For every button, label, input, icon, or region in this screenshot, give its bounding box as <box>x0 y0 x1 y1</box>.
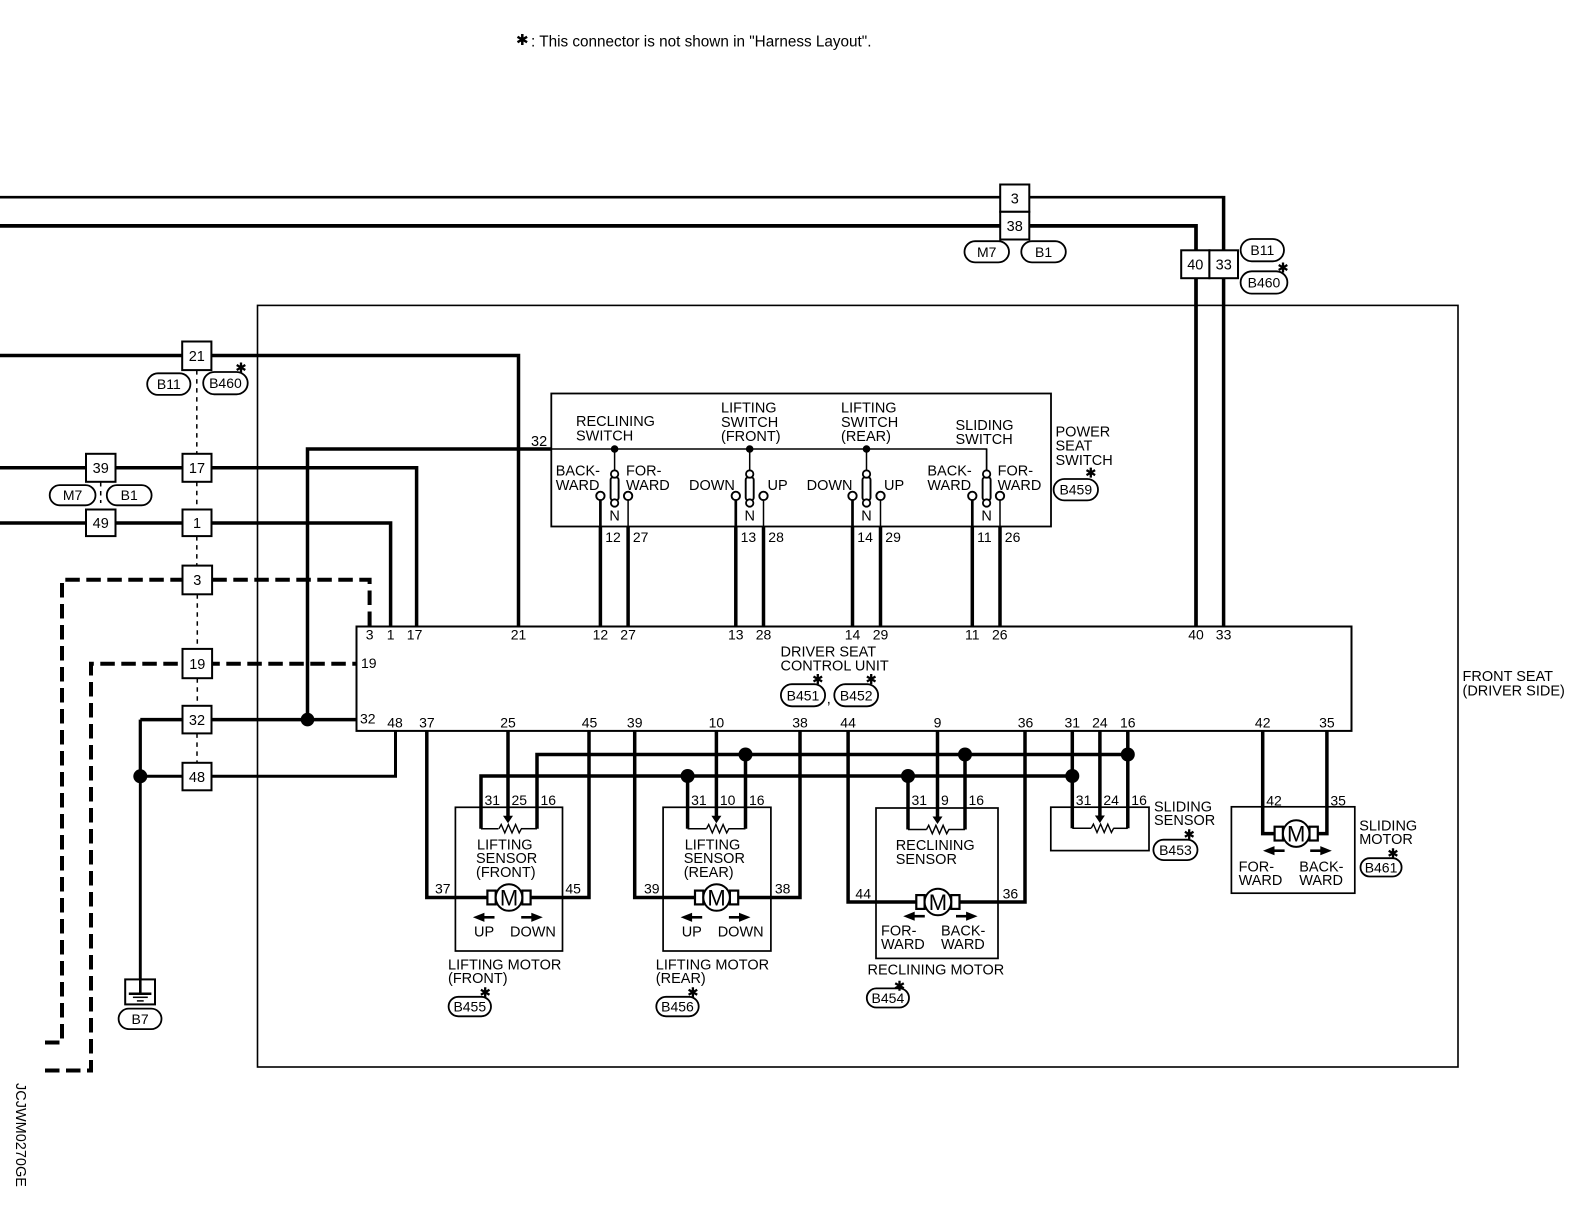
svg-text:32: 32 <box>360 711 376 727</box>
svg-text:28: 28 <box>768 529 784 545</box>
svg-text:JCJWM0270GE: JCJWM0270GE <box>12 1083 28 1187</box>
svg-text:26: 26 <box>992 626 1008 642</box>
svg-text:12: 12 <box>593 626 609 642</box>
svg-text:31: 31 <box>1076 792 1092 808</box>
svg-text:32: 32 <box>189 713 205 729</box>
connector 49 (M7/B1) box <box>86 510 116 537</box>
svg-text:N: N <box>981 509 991 525</box>
connector 3 (M7/B1) box <box>1000 185 1029 212</box>
node A - junction on wire 32 <box>301 713 315 727</box>
wire bus 31 - sensor return bus <box>481 776 1072 829</box>
svg-text:CONTROL UNIT: CONTROL UNIT <box>781 658 889 674</box>
svg-text:11: 11 <box>965 626 980 642</box>
svg-text:WARD: WARD <box>941 937 985 953</box>
connector oval B11 (left) <box>147 373 190 395</box>
wire 24 - DSCU to sliding sensor wiper <box>1098 731 1102 817</box>
svg-text:M: M <box>707 886 725 911</box>
wire 32 - row to DSCU pin 32 <box>140 718 356 722</box>
star B461 <box>1389 848 1398 858</box>
svg-text:13: 13 <box>741 529 757 545</box>
svg-text:DOWN: DOWN <box>718 925 764 941</box>
sliding switch SW4 capsule <box>986 449 988 471</box>
wire pin (left contact x=972.3) to DSCU <box>971 499 974 527</box>
resistor - reclining sensor <box>927 825 949 833</box>
svg-text:39: 39 <box>627 715 643 731</box>
svg-text:DOWN: DOWN <box>510 925 556 941</box>
wire pin (right contact x=1000.0) to DSCU <box>999 500 1001 527</box>
svg-text:N: N <box>744 509 754 525</box>
connector oval B460 (left) <box>203 372 248 394</box>
svg-text:27: 27 <box>633 529 649 545</box>
wire - switch common line inside power seat switch <box>551 449 986 471</box>
connector 17 box <box>183 454 212 482</box>
motor M2 - lifting motor rear <box>695 891 703 905</box>
svg-text:12: 12 <box>605 529 621 545</box>
motor M3 - reclining motor <box>916 895 924 909</box>
svg-text:31: 31 <box>1065 715 1081 731</box>
sliding motor box B461 <box>1231 807 1354 893</box>
connector oval B460 (top right) <box>1241 271 1288 293</box>
wire bus 16 - sensor supply bus <box>537 755 1128 829</box>
svg-text:21: 21 <box>511 626 527 642</box>
svg-text:9: 9 <box>941 792 949 808</box>
svg-text:26: 26 <box>1005 529 1021 545</box>
svg-text:,: , <box>827 692 831 708</box>
svg-text:16: 16 <box>1131 792 1147 808</box>
svg-text:B460: B460 <box>1248 274 1281 290</box>
wire - ground branch vertical <box>139 720 142 777</box>
switch dot - reclining switch junction <box>611 445 619 453</box>
wire - bus 31 drop to lifting sensor rear <box>686 776 690 829</box>
svg-text:21: 21 <box>189 349 205 365</box>
node on bus 31 at reclining sensor <box>901 769 915 783</box>
arrow FORWARD - reclining motor <box>914 915 925 918</box>
wire 25 - DSCU to lifting sensor front wiper <box>506 731 510 817</box>
wiper arrow - lifting sensor rear <box>711 816 721 824</box>
node on bus 16 at pin 16 wire <box>1121 748 1135 762</box>
svg-text:WARD: WARD <box>1239 873 1283 889</box>
wiper arrow - reclining sensor <box>933 817 943 825</box>
connector 39 (M7/B1) box <box>86 454 116 482</box>
reclining sensor box B454 <box>876 808 998 958</box>
svg-text:40: 40 <box>1188 626 1204 642</box>
star B451 <box>814 674 823 684</box>
wire 31 - DSCU to sliding sensor <box>1071 731 1075 828</box>
lifting sensor front box B455 <box>455 807 562 951</box>
svg-text:40: 40 <box>1187 257 1203 273</box>
svg-text:WARD: WARD <box>1299 873 1343 889</box>
svg-text:16: 16 <box>1120 715 1136 731</box>
svg-text:42: 42 <box>1266 793 1282 809</box>
svg-text:31: 31 <box>691 792 707 808</box>
arrow UP - lifting motor front <box>483 916 494 919</box>
svg-text:DOWN: DOWN <box>807 478 853 494</box>
svg-text:UP: UP <box>682 925 702 941</box>
wire 17 - row through connectors 39/17 to DSCU pin 17 <box>0 468 417 627</box>
svg-text:19: 19 <box>361 655 377 671</box>
svg-text:UP: UP <box>474 925 494 941</box>
svg-text:16: 16 <box>541 792 557 808</box>
connector oval B454 <box>867 988 909 1007</box>
wire 9 - DSCU to reclining sensor wiper <box>936 731 940 817</box>
lifting switch front SW2 capsule <box>749 449 751 471</box>
wire 19 - shielded dashed wire to DSCU pin 19 <box>45 664 357 1071</box>
svg-text:39: 39 <box>644 881 660 897</box>
svg-text:38: 38 <box>1007 219 1023 235</box>
wire pin (right contact x=628.1) to DSCU <box>627 500 629 527</box>
star B460 left <box>237 363 246 373</box>
connector oval M7 (top) <box>965 241 1010 262</box>
svg-text:31: 31 <box>485 792 501 808</box>
svg-text:RECLINING MOTOR: RECLINING MOTOR <box>868 963 1005 979</box>
POWER SEAT SWITCH box <box>551 394 1051 527</box>
svg-text:35: 35 <box>1330 793 1346 809</box>
switch dot - lifting switch rear junction <box>863 445 871 453</box>
wire 44 - DSCU to reclining motor <box>848 731 916 902</box>
svg-text:M: M <box>929 890 947 915</box>
connector 3 (left column) box <box>183 566 213 595</box>
svg-text:48: 48 <box>189 770 205 786</box>
svg-text:B452: B452 <box>840 687 873 703</box>
wire 21 - row through connector 21 to DSCU pin 21 <box>0 356 519 627</box>
svg-text:42: 42 <box>1255 715 1271 731</box>
svg-text:11: 11 <box>977 529 992 545</box>
reclining switch SW1 capsule <box>614 449 616 471</box>
wire 3 - shielded dashed wire to DSCU pin 3 <box>45 580 370 1043</box>
wire 45 - DSCU to lifting motor front <box>530 731 589 898</box>
switch dot - lifting switch front junction <box>746 445 754 453</box>
connector oval B452 <box>834 684 878 706</box>
connector oval B11 (top right) <box>1241 239 1284 261</box>
svg-text:B461: B461 <box>1365 859 1398 875</box>
svg-text:M7: M7 <box>977 244 997 260</box>
svg-text:N: N <box>861 509 871 525</box>
star B453 <box>1185 829 1194 839</box>
svg-text:(REAR): (REAR) <box>684 865 734 881</box>
wire 33 - battery feed horizontal <box>0 196 1222 199</box>
svg-text:: This connector is not shown: : This connector is not shown in "Harnes… <box>531 33 871 50</box>
connector oval B459 <box>1054 479 1098 500</box>
wire 38 - DSCU to lifting motor rear <box>738 731 801 898</box>
svg-text:29: 29 <box>885 529 901 545</box>
svg-text:13: 13 <box>728 626 744 642</box>
connector oval M7 (mid) <box>50 485 96 505</box>
svg-text:24: 24 <box>1103 792 1119 808</box>
wire 32 - power seat switch common to node A <box>308 449 552 720</box>
wire - bus 16 drop to lifting sensor rear <box>744 755 748 829</box>
wire 39 - DSCU to lifting motor rear <box>635 731 696 898</box>
svg-text:SENSOR: SENSOR <box>896 852 957 868</box>
svg-text:44: 44 <box>840 715 856 731</box>
arrow DOWN - lifting motor rear <box>729 916 740 919</box>
connector oval B1 (top) <box>1021 241 1066 262</box>
svg-text:DOWN: DOWN <box>689 478 735 494</box>
resistor - lifting sensor front <box>499 825 521 833</box>
connector oval B461 <box>1361 858 1402 876</box>
arrow BACKWARD - reclining motor <box>956 915 967 918</box>
connector 38 (M7/B1) box <box>1000 212 1029 240</box>
arrow BACKWARD - sliding motor <box>1310 849 1321 852</box>
svg-text:16: 16 <box>749 792 765 808</box>
wire pin (left contact x=852.5) to DSCU <box>851 499 854 527</box>
svg-text:3: 3 <box>1011 191 1019 207</box>
node on bus 16 at reclining sensor <box>958 748 972 762</box>
wire pin (right contact x=880.5) to DSCU <box>880 500 882 527</box>
svg-text:1: 1 <box>193 516 201 532</box>
wire pin (left contact x=600.4) to DSCU <box>599 499 602 527</box>
svg-text:35: 35 <box>1319 715 1335 731</box>
star B459 <box>1087 468 1096 478</box>
svg-text:(FRONT): (FRONT) <box>721 429 781 445</box>
wire 35 - DSCU to sliding motor <box>1318 731 1327 834</box>
svg-text:B455: B455 <box>453 999 486 1015</box>
svg-text:10: 10 <box>720 792 736 808</box>
svg-text:B456: B456 <box>661 999 694 1015</box>
star B452 <box>867 674 876 684</box>
connector 40 (B11/B460) box <box>1181 250 1209 278</box>
svg-text:N: N <box>609 509 619 525</box>
svg-text:32: 32 <box>531 434 547 450</box>
svg-text:(REAR): (REAR) <box>841 429 891 445</box>
svg-text:38: 38 <box>775 881 791 897</box>
connector oval B453 <box>1153 840 1197 860</box>
svg-text:31: 31 <box>912 792 928 808</box>
svg-text:B451: B451 <box>787 687 820 703</box>
wire 33 - vertical drop to DSCU pin 33 <box>1222 196 1226 627</box>
svg-text:MOTOR: MOTOR <box>1359 832 1413 848</box>
wiper arrow - lifting sensor front <box>503 816 513 824</box>
svg-text:(DRIVER SIDE): (DRIVER SIDE) <box>1463 683 1565 699</box>
svg-text:(REAR): (REAR) <box>656 971 706 987</box>
svg-text:14: 14 <box>845 626 861 642</box>
connector 19 box <box>183 649 213 678</box>
connector oval B451 <box>781 684 825 706</box>
wire 36 - DSCU to reclining motor <box>959 731 1025 902</box>
svg-text:UP: UP <box>768 478 788 494</box>
lifting sensor rear box B456 <box>663 807 771 951</box>
wire 42 - DSCU to sliding motor <box>1263 731 1275 834</box>
svg-text:UP: UP <box>884 478 904 494</box>
FRONT SEAT (DRIVER SIDE) enclosure box <box>258 305 1459 1067</box>
svg-text:38: 38 <box>792 715 808 731</box>
wire 1 - row through connectors 49/1 to DSCU pin 1 <box>0 523 391 627</box>
motor M4 - sliding motor <box>1275 827 1283 841</box>
connector 21 (B11/B460) box <box>182 342 211 371</box>
lifting switch rear SW3 capsule <box>866 449 868 471</box>
svg-text:WARD: WARD <box>626 478 670 494</box>
wire - bus 31 drop to reclining sensor <box>906 776 910 830</box>
svg-text:36: 36 <box>1018 715 1034 731</box>
sliding switch contacts <box>968 492 976 500</box>
svg-text:M: M <box>1287 822 1305 847</box>
connector oval B1 (mid) <box>107 485 152 505</box>
svg-text:9: 9 <box>934 715 942 731</box>
connector oval B455 <box>449 997 491 1017</box>
svg-text:WARD: WARD <box>927 478 971 494</box>
svg-text:M: M <box>500 886 518 911</box>
svg-text:B460: B460 <box>209 375 242 391</box>
svg-text:WARD: WARD <box>998 478 1042 494</box>
connector oval B456 <box>656 997 698 1017</box>
connector 1 box <box>183 510 212 537</box>
svg-text:25: 25 <box>512 792 528 808</box>
svg-text:28: 28 <box>756 626 772 642</box>
motor M1 - lifting motor front <box>487 891 495 905</box>
lifting switch front contacts <box>732 492 740 500</box>
svg-text:33: 33 <box>1216 257 1232 273</box>
svg-text:B454: B454 <box>872 990 905 1006</box>
svg-text:10: 10 <box>709 715 725 731</box>
node on bus 31 at pin 31 wire <box>1065 769 1079 783</box>
svg-text:36: 36 <box>1003 885 1019 901</box>
svg-text:17: 17 <box>407 626 423 642</box>
note - harness layout footnote <box>518 34 528 45</box>
svg-text:49: 49 <box>93 516 109 532</box>
star B460 top <box>1279 263 1288 273</box>
star B455 <box>481 987 490 997</box>
resistor - sliding sensor <box>1091 824 1113 832</box>
reclining switch contacts <box>596 492 604 500</box>
wire 48 - DSCU pin 48 to ground branch <box>140 731 395 776</box>
svg-text:19: 19 <box>189 657 205 673</box>
wire 10 - DSCU to lifting sensor rear wiper <box>715 731 719 817</box>
connector oval B7 <box>119 1009 162 1030</box>
svg-text:44: 44 <box>855 885 871 901</box>
svg-text:45: 45 <box>565 881 581 897</box>
connector link dashed - 21 to 17 <box>196 370 199 763</box>
wire 16 - DSCU to sliding sensor <box>1126 731 1130 828</box>
lifting switch rear contacts <box>848 492 856 500</box>
svg-text:27: 27 <box>620 626 636 642</box>
wire 37 - DSCU to lifting motor front <box>427 731 488 898</box>
arrow DOWN - lifting motor front <box>521 916 532 919</box>
svg-text:16: 16 <box>969 792 985 808</box>
star B456 <box>689 987 698 997</box>
svg-text:14: 14 <box>857 529 873 545</box>
svg-text:3: 3 <box>366 626 374 642</box>
svg-text:37: 37 <box>435 881 451 897</box>
svg-text:B11: B11 <box>157 376 181 392</box>
svg-text:1: 1 <box>387 626 395 642</box>
svg-text:B459: B459 <box>1059 482 1092 498</box>
svg-text:M7: M7 <box>63 487 83 503</box>
ground symbol <box>125 979 155 1004</box>
arrow FORWARD - sliding motor <box>1274 849 1285 852</box>
svg-text:29: 29 <box>873 626 889 642</box>
star B454 <box>895 981 904 991</box>
DRIVER SEAT CONTROL UNIT box U1 <box>357 627 1352 731</box>
svg-text:(FRONT): (FRONT) <box>448 971 508 987</box>
node on bus 16 at lifting sensor rear <box>739 748 753 762</box>
connector 33 (B11/B460) box <box>1209 250 1238 278</box>
wire 40 - feed through connector 38 <box>0 226 1196 627</box>
svg-text:33: 33 <box>1216 626 1232 642</box>
wiper arrow - sliding sensor <box>1095 816 1105 824</box>
svg-text:SWITCH: SWITCH <box>1056 453 1113 469</box>
svg-text:17: 17 <box>189 461 205 477</box>
connector 32 box <box>183 706 212 734</box>
node on bus 31 at lifting sensor rear <box>681 769 695 783</box>
svg-text:37: 37 <box>419 715 435 731</box>
svg-text:48: 48 <box>387 715 403 731</box>
svg-text:25: 25 <box>500 715 516 731</box>
wire - bus 16 drop to reclining sensor <box>963 755 967 830</box>
wire pin (left contact x=735.8) to DSCU <box>734 499 737 527</box>
wire pin (right contact x=763.5) to DSCU <box>763 500 765 527</box>
svg-text:39: 39 <box>93 461 109 477</box>
node B - junction wire 48 / ground wire <box>133 769 147 783</box>
sliding sensor box B453 <box>1051 807 1149 850</box>
connector 48 box <box>183 763 212 791</box>
connector link dashed - 39 to ovals <box>100 482 102 503</box>
svg-text:B7: B7 <box>131 1011 148 1027</box>
svg-text:45: 45 <box>582 715 598 731</box>
svg-text:B453: B453 <box>1159 842 1192 858</box>
svg-text:SENSOR: SENSOR <box>1154 813 1215 829</box>
arrow UP - lifting motor rear <box>691 916 702 919</box>
svg-text:WARD: WARD <box>556 478 600 494</box>
svg-text:SWITCH: SWITCH <box>956 432 1013 448</box>
svg-text:(FRONT): (FRONT) <box>476 865 536 881</box>
svg-text:24: 24 <box>1092 715 1108 731</box>
svg-text:B1: B1 <box>121 487 138 503</box>
svg-text:B1: B1 <box>1035 244 1052 260</box>
svg-text:SWITCH: SWITCH <box>576 428 633 444</box>
svg-text:3: 3 <box>193 573 201 589</box>
svg-text:B11: B11 <box>1250 242 1274 258</box>
resistor - lifting sensor rear <box>707 825 729 833</box>
svg-text:WARD: WARD <box>881 937 925 953</box>
